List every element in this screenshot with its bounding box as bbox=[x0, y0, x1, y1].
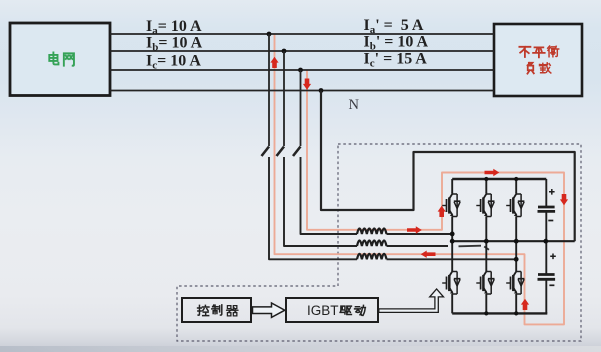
DC capacitor C1 bbox=[545, 179, 547, 207]
coil Lc bbox=[357, 229, 387, 235]
load box bbox=[494, 24, 582, 96]
load label 平 bbox=[533, 47, 545, 57]
phase c tap wire with breaker bbox=[300, 70, 302, 146]
C2 minus sign bbox=[549, 284, 554, 286]
IGBT Q2 bbox=[442, 270, 460, 294]
neutral wire to DC midpoint bbox=[321, 91, 575, 242]
wire coil a to leg3 bbox=[387, 258, 517, 260]
load label 衡 bbox=[548, 46, 559, 57]
grid label 电 bbox=[49, 52, 58, 64]
neutral line bbox=[110, 90, 494, 92]
phase a line bbox=[110, 33, 494, 35]
wire coil b to bridge (part solid) bbox=[387, 245, 449, 247]
compensation-current sense loop (salmon wire) bbox=[275, 34, 565, 324]
phase a tap wire with breaker bbox=[268, 34, 270, 146]
C2 plus sign bbox=[550, 254, 556, 260]
phase b line bbox=[110, 50, 494, 52]
red arrow up beside Q1 bbox=[438, 206, 446, 217]
IGBT drive box bbox=[286, 298, 378, 322]
leg 2 wire bbox=[485, 179, 487, 313]
junction top bus leg3 bbox=[514, 177, 518, 181]
C1 plus sign bbox=[549, 189, 555, 195]
leg 3 wire bbox=[515, 179, 517, 313]
node on phase a bbox=[267, 32, 272, 37]
inverter top bus bbox=[452, 178, 546, 180]
hollow arrow controller to driver bbox=[253, 303, 285, 317]
phase c line bbox=[110, 69, 494, 71]
node on phase b bbox=[282, 49, 287, 54]
load label 不 bbox=[519, 47, 530, 57]
junction bottom bus leg3 bbox=[514, 311, 518, 315]
label 动 bbox=[355, 305, 366, 315]
svg-text:Ic' = 15 A: Ic' = 15 A bbox=[364, 51, 428, 70]
svg-text:Ib' = 10 A: Ib' = 10 A bbox=[364, 33, 429, 52]
svg-text:Ib= 10 A: Ib= 10 A bbox=[146, 35, 203, 54]
red arrow left on return sense wire bbox=[421, 251, 436, 258]
hollow gate-drive wire and arrow bbox=[379, 289, 444, 312]
junction mid bus leg1 bbox=[450, 239, 455, 244]
label 驱 bbox=[340, 306, 351, 314]
IGBT Q4 bbox=[476, 270, 494, 294]
red arrow up beside Q6 bbox=[521, 299, 529, 310]
junction mid bus leg2 bbox=[484, 239, 489, 244]
label 制 bbox=[212, 305, 222, 315]
inverter bottom bus bbox=[452, 312, 547, 314]
junction mid bus leg3 bbox=[514, 239, 519, 244]
red arrow right on lower sense wire bbox=[407, 226, 422, 233]
label 控 bbox=[198, 305, 209, 315]
junction bottom bus leg2 bbox=[484, 311, 488, 315]
IGBT Q3 bbox=[476, 193, 494, 217]
IGBT Q5 bbox=[506, 193, 524, 217]
red arrow down beside C1 bbox=[560, 194, 568, 205]
label 器 bbox=[227, 306, 238, 316]
dashed APF enclosure bbox=[177, 144, 581, 341]
svg-text:Ic= 10 A: Ic= 10 A bbox=[146, 53, 201, 72]
IGBT Q6 bbox=[506, 270, 524, 294]
controller box bbox=[182, 298, 251, 322]
node on neutral bbox=[319, 88, 324, 93]
coil Lb bbox=[357, 241, 387, 247]
junction mid bus cap bbox=[543, 239, 548, 244]
DC capacitor C2 bbox=[545, 241, 547, 274]
node on phase c bbox=[298, 68, 303, 73]
wire coil c to leg1 bbox=[387, 233, 453, 235]
red arrow right on top sense wire bbox=[485, 169, 500, 176]
coil La bbox=[357, 254, 387, 260]
IGBT Q1 bbox=[442, 193, 460, 217]
red arrow ic down bbox=[303, 79, 311, 90]
wire b dashed continuation bbox=[459, 245, 482, 248]
load label 负 bbox=[527, 63, 533, 74]
inverter mid bus bbox=[452, 240, 575, 242]
red arrow ia up bbox=[270, 57, 278, 68]
grid label 网 bbox=[64, 53, 74, 65]
svg-text:N: N bbox=[349, 97, 360, 113]
junction top bus leg2 bbox=[484, 177, 488, 181]
svg-text:IGBT: IGBT bbox=[307, 303, 339, 318]
C1 minus sign bbox=[548, 220, 553, 222]
phase b tap wire with breaker bbox=[283, 51, 285, 146]
grid source box bbox=[10, 23, 110, 96]
load label 载 bbox=[540, 63, 551, 73]
leg 1 wire bbox=[451, 179, 453, 313]
junction phase c / leg1 bbox=[450, 232, 455, 237]
junction phase a / leg3 bbox=[514, 257, 519, 262]
